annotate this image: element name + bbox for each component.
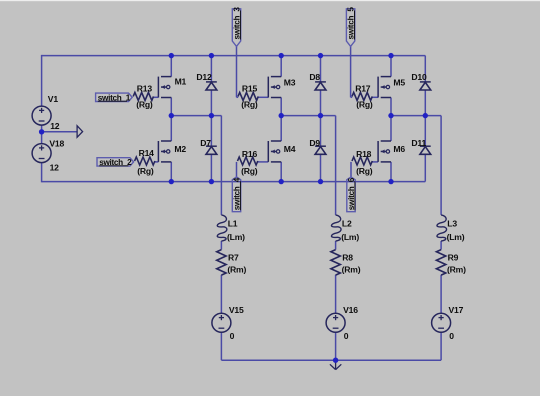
voltage source V16 [326,313,345,332]
wire R15 lead to M3 gate [258,96,268,98]
resistor R14 [135,157,155,165]
wire phase 1 source to ground rail [220,332,222,360]
svg-text:M6: M6 [393,144,405,154]
wire phase 2 inductor to resistor [335,241,337,250]
inductor L1 [217,215,227,241]
svg-text:M2: M2 [174,144,186,154]
wire V18 to bottom rail [41,162,43,182]
output node arrow flag [77,126,83,138]
transistor M5 [378,77,391,98]
wire R13 lead to M1 gate [153,96,158,98]
svg-text:(Rg): (Rg) [356,100,373,110]
svg-text:M5: M5 [393,77,405,87]
svg-text:R7: R7 [228,253,239,263]
svg-text:R9: R9 [448,253,459,263]
wire mid-node output stub [42,131,78,133]
svg-text:(Rm): (Rm) [227,265,246,275]
wire phase 2 lower M source lead [280,162,282,182]
svg-text:R18: R18 [356,149,372,159]
svg-text:D9: D9 [309,138,320,148]
svg-text:V1: V1 [48,94,59,104]
wire phase 1 upper M source lead [170,98,172,116]
svg-text:(Rm): (Rm) [447,265,466,275]
wire phase 1 inductor to resistor [220,241,222,250]
wire phase 2 lower diode leads [320,116,322,147]
wire phase 3 mid rail to output bend [391,115,441,117]
wire phase 3 source to ground rail [440,332,442,360]
wire switch_5 stem down to R17 [350,46,352,97]
svg-text:M4: M4 [284,144,296,154]
svg-text:R13: R13 [137,83,153,93]
ground [330,360,341,369]
resistor R8 [331,250,340,276]
wire phase 2 upper M source lead [280,98,282,116]
transistor M6 [378,141,391,162]
wire phase 3 inductor to resistor [440,241,442,250]
wire phase 2 output down to inductor [335,116,337,215]
diode D10 [420,82,431,90]
net flag switch_3 [232,7,241,47]
transistor M3 [268,77,281,98]
junction ground rail [333,358,338,363]
svg-text:D10: D10 [411,72,427,82]
junction bottom rail x=391 [388,179,393,184]
svg-text:V17: V17 [449,305,464,315]
svg-text:(Rg): (Rg) [356,166,373,176]
wire phase 1 mid rail to output bend [171,115,221,117]
junction top rail x=391 [388,53,393,58]
resistor R16 [238,157,258,165]
wire phase 2 mid rail to output bend [281,115,335,117]
svg-text:D8: D8 [309,72,320,82]
voltage source V17 [432,313,451,332]
junction bottom rail x=211.4 [209,179,214,184]
wire ground return rail [221,359,441,361]
wire R17 lead to M5 gate [372,96,378,98]
junction mid rail x=425.3 [423,113,428,118]
window top edge highlight [0,0,540,1]
resistor R9 [436,250,445,276]
svg-text:D7: D7 [200,138,211,148]
wire phase 3 lower M source lead [390,162,392,182]
junction top rail x=320.5 [318,53,323,58]
wire phase 1 lower M source lead [170,162,172,182]
junction bottom rail x=281.2 [279,179,284,184]
net flag switch_6 [347,177,356,212]
svg-text:M1: M1 [175,76,187,86]
diode D11 [420,146,431,154]
net flag switch_4 [232,177,241,212]
svg-text:D12: D12 [196,72,212,82]
wire phase 1 M drain lead top [170,56,172,77]
junction top rail x=171.3 [169,53,174,58]
wire R14 lead to M2 gate [155,161,159,163]
junction mid rail x=320.5 [318,113,323,118]
resistor R15 [238,92,258,100]
svg-text:R8: R8 [342,253,353,263]
wire phase 3 lower diode leads [424,116,426,147]
wire V+ rail drop to V1 [41,55,43,107]
wire phase 2 upper diode leads [320,56,322,82]
svg-text:M3: M3 [284,77,296,87]
wire phase 1 lower diode leads [210,116,212,147]
voltage source V1 [32,106,51,125]
wire phase 2 lower M drain lead [280,116,282,141]
svg-text:0: 0 [344,331,349,341]
svg-text:L2: L2 [342,219,352,229]
diode D9 [315,146,326,154]
wire switch_4 stem up to R16 [236,162,238,177]
wire switch_6 stem up to R18 [350,162,352,177]
inductor L2 [331,215,341,241]
svg-text:0: 0 [230,331,235,341]
svg-text:(Lm): (Lm) [341,232,359,242]
junction top rail x=281.2 [279,53,284,58]
resistor R13 [133,92,153,100]
transistor M4 [268,141,281,162]
svg-text:(Lm): (Lm) [447,232,465,242]
net flag switch_2 [97,158,134,167]
svg-text:(Rg): (Rg) [136,100,153,110]
svg-text:12: 12 [50,121,60,131]
wire phase 3 upper diode leads [424,56,426,82]
svg-text:V15: V15 [229,305,244,315]
svg-text:R14: R14 [139,148,155,158]
wire phase 3 M drain lead top [390,56,392,77]
wire phase 1 output down to inductor [220,116,222,215]
wire phase 3 lower M drain lead [390,116,392,141]
svg-text:R16: R16 [242,149,258,159]
junction bottom rail x=320.5 [318,179,323,184]
resistor R7 [217,250,226,276]
svg-text:R15: R15 [242,83,258,93]
junction V1/V18 mid node [39,129,44,134]
junction top rail x=211.4 [209,53,214,58]
svg-text:(Rg): (Rg) [137,166,154,176]
wire switch_3 stem down to R15 [236,46,238,97]
svg-text:D11: D11 [411,138,426,148]
svg-text:0: 0 [449,331,454,341]
transistor M2 [158,141,171,162]
junction mid rail x=211.4 [209,113,214,118]
svg-text:V18: V18 [49,139,64,149]
diode D12 [206,82,217,90]
svg-text:12: 12 [50,163,60,173]
wire phase 3 upper M source lead [390,98,392,116]
wire phase 2 M drain lead top [280,56,282,77]
wire R16 lead to M4 gate [258,161,269,163]
wire phase 2 resistor to source [335,275,337,313]
svg-text:(Lm): (Lm) [227,232,245,242]
voltage source V18 [32,144,51,163]
resistor R18 [352,157,372,165]
wire phase 3 resistor to source [440,275,442,313]
svg-text:V16: V16 [343,305,358,315]
wire phase 3 output down to inductor [440,116,442,215]
diode D8 [315,82,326,90]
svg-text:(Rm): (Rm) [342,265,361,275]
svg-text:L1: L1 [228,219,238,229]
wire top supply rail [42,55,426,57]
wire bridge bottom rail [42,181,426,183]
transistor M1 [158,77,171,98]
net flag switch_5 [346,7,355,47]
diode D7 [206,146,217,154]
net flag switch_1 [96,93,133,102]
junction mid rail x=171.3 [169,113,174,118]
wire phase 2 source to ground rail [335,332,337,360]
svg-text:(Rg): (Rg) [241,100,258,110]
svg-text:L3: L3 [447,219,457,229]
junction bottom rail x=171.3 [169,179,174,184]
wire phase 1 resistor to source [220,275,222,313]
wire phase 1 lower M drain lead [170,116,172,141]
junction mid rail x=391 [388,113,393,118]
inductor L3 [437,215,447,241]
voltage source V15 [212,313,231,332]
wire phase 1 upper diode leads [210,56,212,82]
svg-text:(Rg): (Rg) [241,166,258,176]
resistor R17 [352,92,372,100]
wire R18 lead to M6 gate [372,161,378,163]
wire V1 to V18 junction [41,125,43,144]
svg-text:R17: R17 [355,83,371,93]
junction mid rail x=281.2 [279,113,284,118]
